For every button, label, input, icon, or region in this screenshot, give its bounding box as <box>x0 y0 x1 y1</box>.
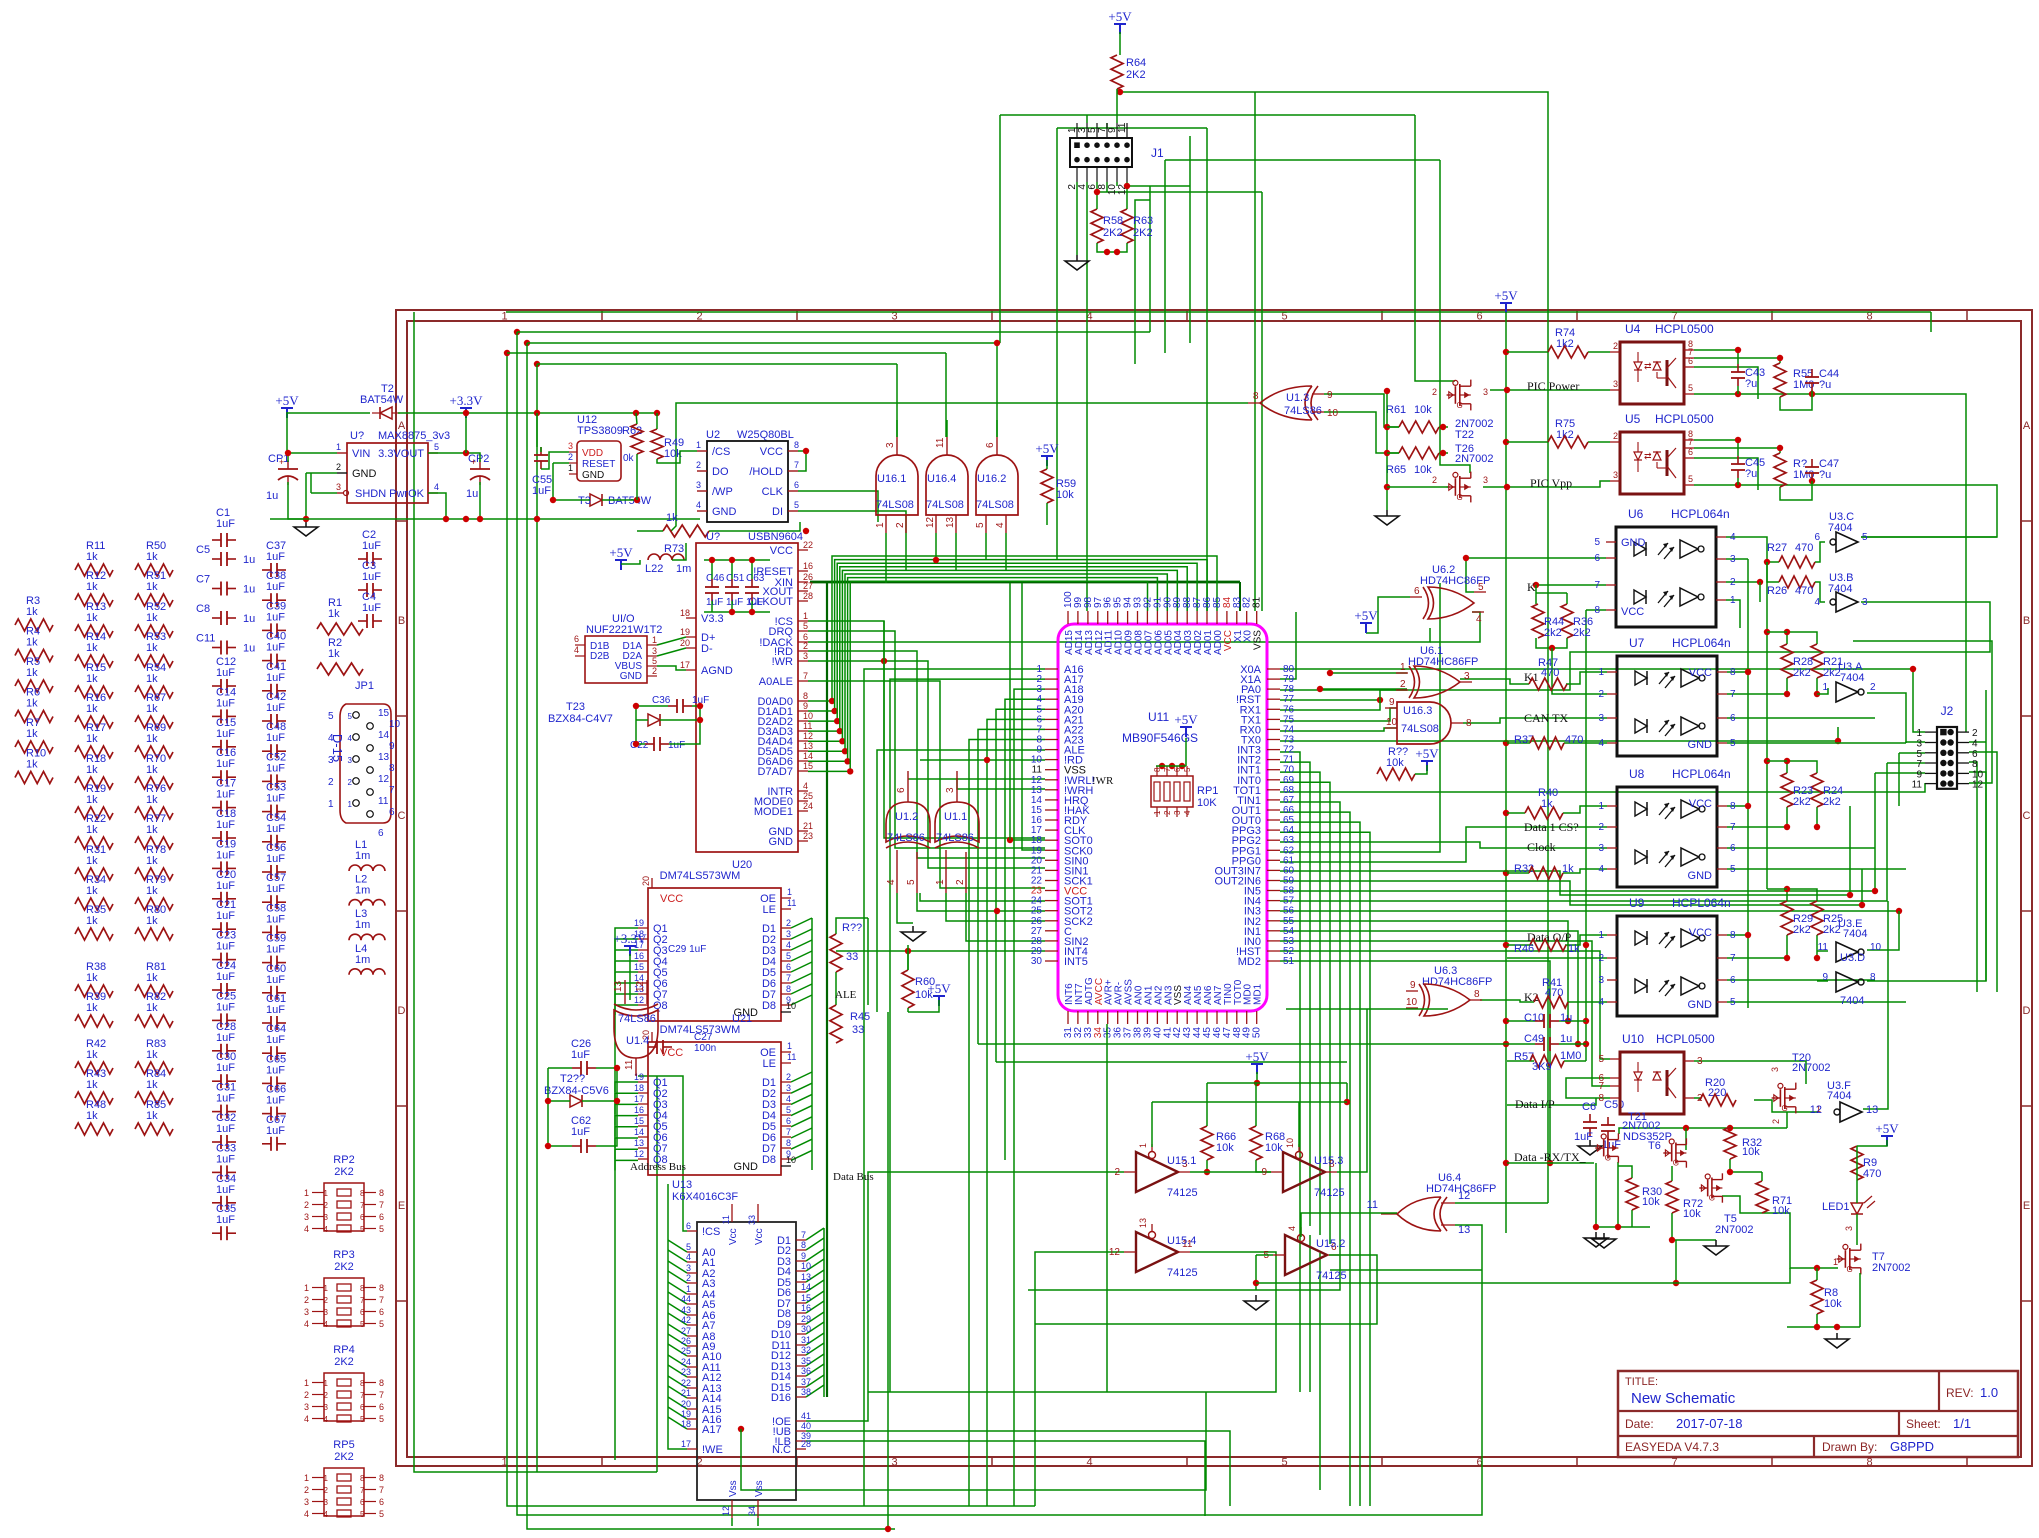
svg-text:11: 11 <box>378 796 389 807</box>
svg-text:3: 3 <box>945 787 956 793</box>
svg-text:43: 43 <box>681 1305 691 1315</box>
svg-text:1k: 1k <box>146 794 158 806</box>
svg-text:25: 25 <box>803 791 813 801</box>
svg-text:2k2: 2k2 <box>1823 796 1841 808</box>
svg-text:8: 8 <box>1598 1093 1604 1104</box>
svg-text:GND: GND <box>582 470 604 481</box>
svg-text:7: 7 <box>1671 1457 1677 1469</box>
svg-text:3: 3 <box>304 1402 309 1412</box>
svg-text:1uF: 1uF <box>266 913 285 925</box>
svg-text:LED1: LED1 <box>1822 1201 1850 1213</box>
svg-text:GND: GND <box>712 506 737 518</box>
svg-text:U1.2: U1.2 <box>895 811 918 823</box>
svg-text:6: 6 <box>985 442 996 448</box>
svg-text:13: 13 <box>801 1272 811 1282</box>
svg-text:R73: R73 <box>664 543 684 555</box>
svg-text:VCC: VCC <box>1689 927 1712 939</box>
svg-text:7: 7 <box>803 671 808 681</box>
svg-text:74LS86: 74LS86 <box>887 832 925 844</box>
svg-text:3: 3 <box>324 1498 329 1507</box>
svg-text:/CS: /CS <box>712 446 730 458</box>
svg-text:23: 23 <box>803 831 813 841</box>
svg-text:+3.3V: +3.3V <box>450 393 484 408</box>
svg-text:4: 4 <box>686 1252 691 1262</box>
svg-text:18: 18 <box>680 608 690 618</box>
svg-text:2: 2 <box>568 452 573 462</box>
svg-text:Data 1 CS?: Data 1 CS? <box>1524 820 1579 834</box>
svg-text:1k: 1k <box>86 1049 98 1061</box>
svg-text:2: 2 <box>696 460 701 470</box>
svg-text:12: 12 <box>378 774 390 785</box>
svg-text:1uF: 1uF <box>216 1153 235 1165</box>
svg-text:B: B <box>398 615 405 627</box>
svg-text:1k: 1k <box>26 606 38 618</box>
svg-text:7: 7 <box>389 785 395 796</box>
svg-text:U?: U? <box>706 531 720 543</box>
svg-text:!WR: !WR <box>772 656 793 668</box>
svg-text:2K2: 2K2 <box>1103 227 1123 239</box>
svg-text:1: 1 <box>787 887 792 897</box>
svg-text:1uF: 1uF <box>266 1004 285 1016</box>
svg-text:3: 3 <box>885 442 896 448</box>
svg-text:10k: 10k <box>1683 1208 1701 1220</box>
svg-text:1: 1 <box>1598 801 1604 812</box>
svg-text:U16.1: U16.1 <box>877 473 906 485</box>
svg-text:10: 10 <box>1285 1138 1295 1148</box>
svg-text:E: E <box>2023 1200 2030 1212</box>
svg-text:36: 36 <box>801 1366 811 1376</box>
svg-text:470: 470 <box>1863 1168 1881 1180</box>
svg-text:74LS86: 74LS86 <box>936 832 974 844</box>
svg-text:15: 15 <box>634 962 644 972</box>
svg-text:CLK: CLK <box>762 486 784 498</box>
svg-text:17: 17 <box>681 1439 691 1449</box>
svg-text:1uF: 1uF <box>216 1184 235 1196</box>
svg-text:13: 13 <box>803 741 813 751</box>
svg-text:1k: 1k <box>86 673 98 685</box>
svg-text:8: 8 <box>1594 605 1600 616</box>
svg-text:HD74HC86FP: HD74HC86FP <box>1422 976 1492 988</box>
svg-text:VIN: VIN <box>352 448 370 460</box>
svg-text:GND: GND <box>1688 999 1713 1011</box>
svg-text:+5V: +5V <box>1354 608 1378 623</box>
svg-text:Data I/P: Data I/P <box>1515 1097 1555 1111</box>
svg-text:3: 3 <box>336 482 341 492</box>
svg-text:8: 8 <box>786 1138 791 1148</box>
svg-text:1k: 1k <box>86 612 98 624</box>
svg-text:1uF: 1uF <box>216 1001 235 1013</box>
svg-text:BAT54W: BAT54W <box>608 495 652 507</box>
svg-text:1k: 1k <box>86 1079 98 1091</box>
svg-text:1uF: 1uF <box>216 518 235 530</box>
svg-text:5: 5 <box>360 1320 365 1329</box>
svg-text:24: 24 <box>803 801 813 811</box>
svg-text:2k2: 2k2 <box>1544 627 1562 639</box>
svg-text:13: 13 <box>613 980 624 992</box>
svg-text:K: K <box>1527 580 1536 594</box>
svg-text:5: 5 <box>906 879 917 885</box>
svg-text:4: 4 <box>324 1415 329 1424</box>
svg-text:6: 6 <box>786 962 791 972</box>
svg-text:1k: 1k <box>86 794 98 806</box>
svg-text:5: 5 <box>975 522 986 528</box>
svg-text:6: 6 <box>574 634 579 644</box>
svg-text:5: 5 <box>1862 532 1868 543</box>
svg-text:C: C <box>398 810 406 822</box>
svg-text:G: G <box>1782 1104 1788 1113</box>
svg-text:1: 1 <box>787 1041 792 1051</box>
svg-text:5: 5 <box>1478 582 1484 593</box>
svg-text:5: 5 <box>328 711 334 722</box>
svg-text:GND: GND <box>620 671 642 682</box>
svg-text:1k: 1k <box>86 551 98 563</box>
svg-text:470: 470 <box>1541 667 1559 679</box>
svg-text:2: 2 <box>1432 387 1437 397</box>
svg-text:GND: GND <box>1688 870 1713 882</box>
svg-text:12: 12 <box>635 980 646 992</box>
svg-text:31: 31 <box>801 1335 811 1345</box>
svg-text:24: 24 <box>681 1357 691 1367</box>
svg-text:35: 35 <box>801 1356 811 1366</box>
svg-text:6: 6 <box>378 828 384 839</box>
svg-text:1u: 1u <box>266 490 278 502</box>
svg-text:2: 2 <box>324 1201 329 1210</box>
svg-text:Vcc: Vcc <box>728 1228 739 1245</box>
svg-text:30: 30 <box>801 1324 811 1334</box>
svg-text:6: 6 <box>389 807 395 818</box>
svg-text:1k: 1k <box>666 512 678 524</box>
svg-text:8: 8 <box>1253 391 1259 402</box>
svg-text:8: 8 <box>1870 972 1876 983</box>
svg-text:13: 13 <box>1138 1218 1148 1228</box>
svg-text:3: 3 <box>1613 470 1618 480</box>
svg-text:10k: 10k <box>1414 464 1432 476</box>
svg-text:1uF: 1uF <box>266 793 285 805</box>
svg-text:3K9: 3K9 <box>1532 1061 1552 1073</box>
svg-text:1uF: 1uF <box>216 971 235 983</box>
svg-text:2: 2 <box>1730 577 1736 588</box>
svg-text:15: 15 <box>803 761 813 771</box>
svg-text:3: 3 <box>1613 379 1618 389</box>
svg-text:1k: 1k <box>146 733 158 745</box>
svg-text:Vss: Vss <box>728 1480 739 1497</box>
svg-text:100n: 100n <box>694 1043 716 1054</box>
svg-text:PIC Vpp: PIC Vpp <box>1530 476 1572 490</box>
svg-text:2: 2 <box>1870 682 1876 693</box>
svg-text:3: 3 <box>304 1212 309 1222</box>
svg-text:Data Bus: Data Bus <box>833 1171 874 1183</box>
svg-text:1uF: 1uF <box>266 732 285 744</box>
svg-text:1uF: 1uF <box>726 597 743 608</box>
svg-text:1k: 1k <box>146 885 158 897</box>
svg-text:1uF: 1uF <box>266 853 285 865</box>
svg-text:11: 11 <box>935 437 946 448</box>
svg-text:C6: C6 <box>1582 1101 1596 1113</box>
svg-text:1k: 1k <box>86 885 98 897</box>
svg-text:6: 6 <box>360 1498 365 1507</box>
svg-text:2K2: 2K2 <box>334 1356 354 1368</box>
svg-text:10: 10 <box>786 1155 796 1165</box>
svg-text:PwrOK: PwrOK <box>389 488 425 500</box>
svg-text:2k2: 2k2 <box>1573 627 1591 639</box>
svg-text:8: 8 <box>786 984 791 994</box>
svg-text:+5V: +5V <box>927 981 951 996</box>
svg-text:BZX84-C5V6: BZX84-C5V6 <box>544 1085 609 1097</box>
svg-text:7: 7 <box>786 973 791 983</box>
svg-text:4: 4 <box>1476 614 1482 625</box>
svg-text:1: 1 <box>686 1284 691 1294</box>
svg-text:2k2: 2k2 <box>1793 796 1811 808</box>
svg-text:1uF: 1uF <box>362 540 381 552</box>
svg-text:4: 4 <box>1814 597 1820 608</box>
svg-text:4: 4 <box>995 522 1006 528</box>
svg-text:2N7002: 2N7002 <box>1455 453 1494 465</box>
svg-text:74125: 74125 <box>1316 1270 1347 1282</box>
svg-text:2k2: 2k2 <box>1793 924 1811 936</box>
svg-text:4: 4 <box>434 482 439 492</box>
svg-text:10: 10 <box>1406 997 1418 1008</box>
svg-text:3: 3 <box>1598 975 1604 986</box>
svg-text:8: 8 <box>360 1284 365 1293</box>
svg-text:+3.3V: +3.3V <box>614 931 648 946</box>
svg-text:1uF: 1uF <box>216 697 235 709</box>
svg-text:21: 21 <box>681 1388 691 1398</box>
svg-text:Vss: Vss <box>754 1480 765 1497</box>
svg-text:14: 14 <box>378 730 390 741</box>
svg-text:10: 10 <box>786 1001 796 1011</box>
svg-text:74125: 74125 <box>1167 1267 1198 1279</box>
svg-text:T2??: T2?? <box>560 1073 585 1085</box>
svg-text:74LS08: 74LS08 <box>1401 723 1439 735</box>
svg-text:2: 2 <box>336 462 341 472</box>
svg-text:7: 7 <box>360 1201 365 1210</box>
svg-text:6: 6 <box>360 1213 365 1222</box>
svg-text:RP4: RP4 <box>333 1344 354 1356</box>
svg-text:2N7002: 2N7002 <box>1715 1224 1754 1236</box>
svg-text:4: 4 <box>1287 1226 1297 1231</box>
svg-text:7: 7 <box>1688 437 1693 447</box>
svg-text:TPS3809: TPS3809 <box>577 425 623 437</box>
svg-text:1M0: 1M0 <box>1793 379 1814 391</box>
svg-text:2K2: 2K2 <box>334 1261 354 1273</box>
svg-text:L22: L22 <box>645 563 663 575</box>
svg-text:1uF: 1uF <box>571 1049 590 1061</box>
svg-text:3: 3 <box>786 1083 791 1093</box>
svg-text:1: 1 <box>652 635 657 645</box>
svg-text:1: 1 <box>324 1284 329 1293</box>
svg-text:+5V: +5V <box>1174 712 1198 727</box>
svg-text:MAX8875_3v3: MAX8875_3v3 <box>378 430 450 442</box>
svg-text:USBN9604: USBN9604 <box>748 531 803 543</box>
svg-text:?u: ?u <box>1745 378 1757 390</box>
svg-text:22: 22 <box>681 1378 691 1388</box>
svg-text:1uF: 1uF <box>216 1062 235 1074</box>
svg-text:1uF: 1uF <box>266 1064 285 1076</box>
svg-text:1u: 1u <box>243 584 255 596</box>
svg-text:HCPL064n: HCPL064n <box>1671 507 1730 521</box>
svg-text:6: 6 <box>1414 586 1420 597</box>
svg-text:U6: U6 <box>1628 507 1644 521</box>
svg-text:1m: 1m <box>355 850 370 862</box>
svg-text:8: 8 <box>379 1473 384 1483</box>
svg-text:12: 12 <box>634 995 644 1005</box>
svg-text:1uF: 1uF <box>216 1214 235 1226</box>
svg-text:1/1: 1/1 <box>1953 1416 1971 1431</box>
svg-text:1: 1 <box>696 440 701 450</box>
svg-text:13: 13 <box>378 752 390 763</box>
svg-text:1uF: 1uF <box>668 740 685 751</box>
svg-text:MD1: MD1 <box>1253 983 1264 1005</box>
svg-text:18: 18 <box>634 1083 644 1093</box>
svg-text:3: 3 <box>1173 810 1182 815</box>
svg-text:C5: C5 <box>196 544 210 556</box>
svg-text:10: 10 <box>1386 717 1398 728</box>
svg-text:8: 8 <box>1730 930 1736 941</box>
svg-text:6: 6 <box>1594 553 1600 564</box>
svg-text:1uF: 1uF <box>266 551 285 563</box>
svg-text:ALE: ALE <box>835 989 857 1001</box>
svg-text:33: 33 <box>846 951 858 963</box>
svg-text:2: 2 <box>304 1295 309 1305</box>
svg-text:1k: 1k <box>146 1049 158 1061</box>
svg-text:1k: 1k <box>328 648 340 660</box>
svg-text:R26: R26 <box>1767 585 1787 597</box>
svg-text:R65: R65 <box>1386 464 1406 476</box>
svg-text:C63: C63 <box>746 573 765 584</box>
svg-text:GND: GND <box>734 1161 759 1173</box>
svg-text:5: 5 <box>360 1415 365 1424</box>
svg-text:10k: 10k <box>1265 1142 1283 1154</box>
svg-text:1u: 1u <box>243 643 255 655</box>
svg-text:3: 3 <box>891 1457 897 1469</box>
svg-text:U15.1: U15.1 <box>1167 1155 1196 1167</box>
svg-text:3: 3 <box>1598 713 1604 724</box>
svg-text:4: 4 <box>324 1225 329 1234</box>
svg-text:⇄: ⇄ <box>1644 451 1652 461</box>
svg-text:1M0: 1M0 <box>1793 469 1814 481</box>
svg-text:D8: D8 <box>762 1154 776 1166</box>
svg-text:U16.2: U16.2 <box>977 473 1006 485</box>
svg-text:17: 17 <box>634 1094 644 1104</box>
svg-text:44: 44 <box>681 1294 691 1304</box>
svg-text:38: 38 <box>801 1387 811 1397</box>
svg-text:Vcc: Vcc <box>754 1228 765 1245</box>
svg-text:VCC: VCC <box>660 893 683 905</box>
svg-text:6: 6 <box>379 1307 384 1317</box>
svg-text:U1.3: U1.3 <box>1286 392 1309 404</box>
svg-text:9: 9 <box>1822 972 1828 983</box>
svg-text:19: 19 <box>634 918 644 928</box>
svg-text:12: 12 <box>1109 1247 1121 1258</box>
svg-text:6: 6 <box>786 1116 791 1126</box>
svg-text:10k: 10k <box>1772 1205 1790 1217</box>
svg-text:8: 8 <box>379 1378 384 1388</box>
svg-text:Address Bus: Address Bus <box>630 1161 686 1173</box>
svg-text:7: 7 <box>360 1391 365 1400</box>
svg-text:33: 33 <box>747 1215 757 1225</box>
svg-text:D7AD7: D7AD7 <box>758 766 793 778</box>
svg-text:1k: 1k <box>146 824 158 836</box>
svg-text:5: 5 <box>652 656 657 666</box>
svg-text:11: 11 <box>721 1215 731 1224</box>
svg-text:E: E <box>398 1200 405 1212</box>
svg-text:1k: 1k <box>146 1110 158 1122</box>
svg-text:14: 14 <box>803 751 813 761</box>
svg-text:2: 2 <box>1598 689 1604 700</box>
svg-text:!WR: !WR <box>1092 775 1114 787</box>
svg-text:5: 5 <box>686 1242 691 1252</box>
svg-text:9: 9 <box>801 1251 806 1261</box>
svg-text:74LS08: 74LS08 <box>976 499 1014 511</box>
svg-text:U1.1: U1.1 <box>944 811 967 823</box>
svg-text:51: 51 <box>1283 956 1295 967</box>
svg-text:30: 30 <box>1031 956 1043 967</box>
svg-text:13: 13 <box>634 1138 644 1148</box>
svg-text:7: 7 <box>1916 759 1922 770</box>
svg-text:9: 9 <box>1261 1167 1267 1178</box>
svg-text:74LS86: 74LS86 <box>1284 405 1322 417</box>
svg-text:1uF: 1uF <box>216 667 235 679</box>
svg-text:4: 4 <box>886 879 897 885</box>
svg-text:1: 1 <box>304 1378 309 1388</box>
svg-text:+5V: +5V <box>1875 1121 1899 1136</box>
svg-text:1k: 1k <box>86 703 98 715</box>
svg-text:15: 15 <box>801 1293 811 1303</box>
svg-text:2: 2 <box>955 879 966 885</box>
svg-text:1uF: 1uF <box>216 910 235 922</box>
svg-text:11: 11 <box>1367 1199 1378 1211</box>
svg-text:7: 7 <box>379 1200 384 1210</box>
svg-text:G: G <box>1847 1265 1853 1274</box>
svg-text:HCPL064n: HCPL064n <box>1672 767 1731 781</box>
svg-text:7404: 7404 <box>1828 522 1852 534</box>
svg-text:3: 3 <box>652 646 657 656</box>
svg-text:1uF: 1uF <box>1602 1139 1621 1151</box>
svg-text:2: 2 <box>304 1485 309 1495</box>
svg-text:3: 3 <box>568 441 573 451</box>
svg-text:1k: 1k <box>86 1110 98 1122</box>
svg-text:2k2: 2k2 <box>1793 667 1811 679</box>
svg-text:3: 3 <box>686 1263 691 1273</box>
svg-text:7: 7 <box>786 1127 791 1137</box>
svg-text:26: 26 <box>681 1336 691 1346</box>
svg-text:1k: 1k <box>1562 863 1574 875</box>
svg-text:R46: R46 <box>1514 943 1534 955</box>
svg-text:G: G <box>1605 1154 1611 1163</box>
svg-text:1uF: 1uF <box>266 1095 285 1107</box>
svg-text:11: 11 <box>1912 780 1923 791</box>
svg-text:7: 7 <box>360 1486 365 1495</box>
svg-text:RESET: RESET <box>582 459 615 470</box>
svg-text:MD2: MD2 <box>1238 956 1261 968</box>
svg-text:5: 5 <box>786 951 791 961</box>
svg-text:4: 4 <box>304 1414 309 1424</box>
svg-text:R63: R63 <box>1133 215 1153 227</box>
svg-text:G: G <box>1709 1194 1715 1203</box>
svg-text:2: 2 <box>786 918 791 928</box>
svg-text:2K2: 2K2 <box>334 1166 354 1178</box>
svg-text:+5V: +5V <box>275 393 299 408</box>
svg-text:LE: LE <box>763 904 776 916</box>
svg-text:1uF: 1uF <box>216 1032 235 1044</box>
svg-text:C27: C27 <box>694 1032 713 1043</box>
svg-text:2N7002: 2N7002 <box>1792 1062 1831 1074</box>
svg-text:6: 6 <box>379 1212 384 1222</box>
svg-text:T3: T3 <box>578 495 591 507</box>
svg-text:2: 2 <box>1114 1167 1120 1178</box>
svg-text:40: 40 <box>801 1421 811 1431</box>
svg-text:!WE: !WE <box>702 1444 723 1456</box>
